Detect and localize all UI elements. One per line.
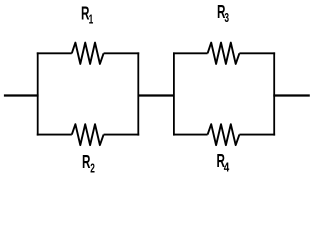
wire: left external lead <box>4 94 39 96</box>
wire: right group top rail, left segment <box>173 52 208 54</box>
wire: right parallel group, left vertical branch junction <box>173 52 175 135</box>
wire: left group bottom rail, right segment <box>104 134 140 136</box>
wire: middle series link <box>138 94 174 96</box>
wire: left group bottom rail, left segment <box>37 134 72 136</box>
label R1 <box>81 4 93 27</box>
resistor R1 (zigzag body) <box>72 43 104 64</box>
wire: right group bottom rail, right segment <box>239 134 275 136</box>
wire: left group top rail, left segment <box>37 52 72 54</box>
wire: right group top rail, right segment <box>239 52 275 54</box>
resistor R2 (zigzag body) <box>72 124 104 145</box>
svg-text:3: 3 <box>224 11 229 25</box>
wire: left group top rail, right segment <box>104 52 140 54</box>
label R3 <box>217 3 229 26</box>
wire: left parallel group, left vertical branch junction <box>37 52 39 135</box>
resistor R3 (zigzag body) <box>208 43 240 64</box>
wire: right parallel group, right vertical branch junction <box>273 52 275 135</box>
svg-text:2: 2 <box>90 162 95 176</box>
svg-text:1: 1 <box>89 13 94 27</box>
label R2 <box>82 153 95 176</box>
label R4 <box>217 152 230 175</box>
svg-text:4: 4 <box>224 161 230 175</box>
wire: right external lead <box>273 94 310 96</box>
svg-text:R: R <box>82 153 90 173</box>
wire: right group bottom rail, left segment <box>173 134 208 136</box>
wire: left parallel group, right vertical branch junction <box>137 52 139 135</box>
resistor R4 (zigzag body) <box>208 124 240 145</box>
